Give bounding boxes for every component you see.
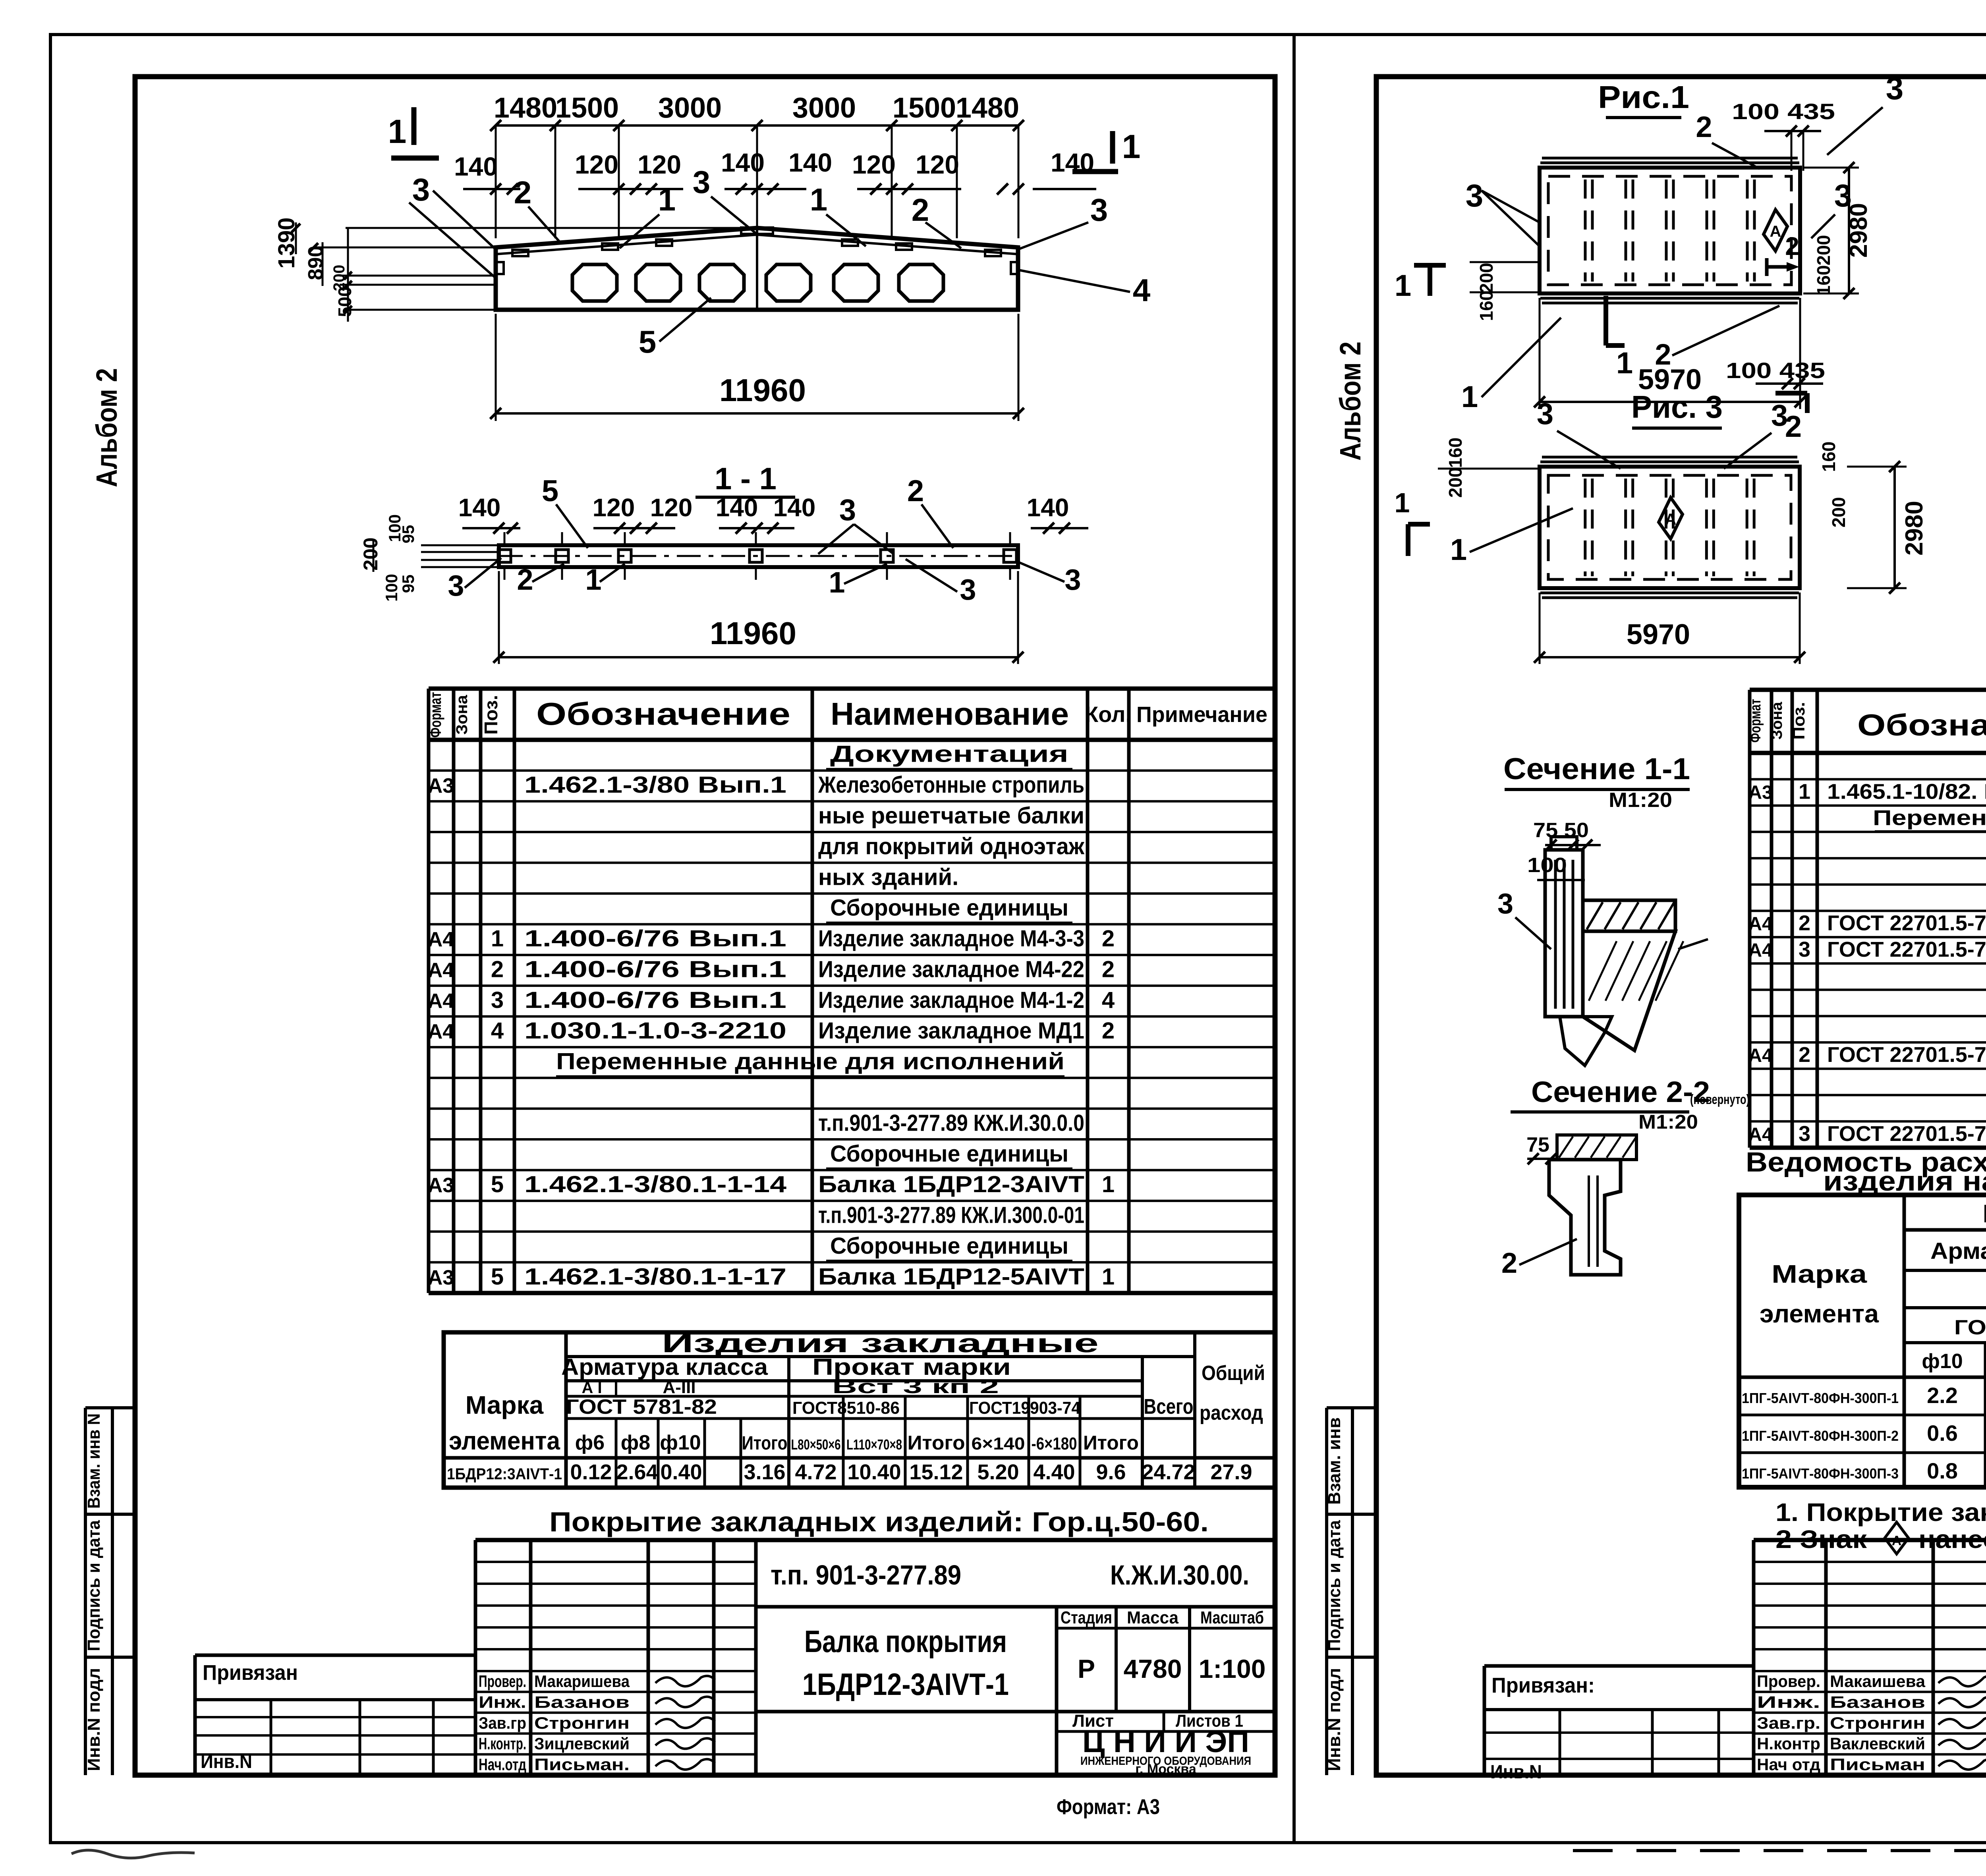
svg-text:Альбом 2: Альбом 2: [1334, 342, 1367, 461]
svg-text:Кол.: Кол.: [1085, 702, 1132, 727]
svg-text:Зона: Зона: [1769, 702, 1785, 740]
svg-text:А3: А3: [1748, 782, 1772, 803]
svg-text:5: 5: [639, 324, 657, 359]
svg-text:2: 2: [1799, 1043, 1810, 1067]
svg-text:160: 160: [1445, 438, 1466, 468]
svg-text:1500: 1500: [893, 92, 956, 124]
svg-text:Привязан: Привязан: [203, 1661, 298, 1685]
svg-text:Изделия закладные: Изделия закладные: [662, 1328, 1099, 1358]
svg-text:ные решетчатые балки: ные решетчатые балки: [818, 803, 1084, 828]
svg-text:Арматура класса: Арматура класса: [561, 1354, 768, 1380]
svg-text:2: 2: [1785, 232, 1799, 261]
svg-text:Железобетонные стропиль: Железобетонные стропиль: [818, 772, 1084, 798]
svg-text:Обозначение: Обозначение: [536, 696, 790, 731]
svg-text:ных зданий.: ных зданий.: [818, 864, 958, 890]
svg-text:4: 4: [491, 1018, 504, 1044]
svg-text:200: 200: [1813, 235, 1834, 266]
svg-text:0.6: 0.6: [1927, 1421, 1958, 1446]
svg-text:Инж.: Инж.: [1757, 1693, 1820, 1711]
svg-text:1ПГ-5АIVТ-80ФН-300П-2: 1ПГ-5АIVТ-80ФН-300П-2: [1742, 1428, 1899, 1444]
svg-text:1.465.1-10/82. Вып. 0:1: 1.465.1-10/82. Вып. 0:1: [1827, 780, 1986, 803]
svg-text:1.400-6/76 Вып.1: 1.400-6/76 Вып.1: [524, 987, 786, 1013]
svg-text:Обозначение: Обозначение: [1857, 708, 1986, 742]
svg-text:Поз.: Поз.: [481, 695, 501, 735]
svg-text:Базанов: Базанов: [1830, 1693, 1925, 1711]
svg-text:Вст 3 кп 2: Вст 3 кп 2: [832, 1376, 999, 1397]
svg-text:2: 2: [1696, 110, 1712, 143]
svg-text:11960: 11960: [719, 372, 806, 408]
svg-text:Нач.отд: Нач.отд: [479, 1755, 526, 1774]
svg-text:Формат: Формат: [427, 692, 444, 738]
svg-text:4.40: 4.40: [1033, 1460, 1075, 1484]
svg-text:Масса: Масса: [1127, 1608, 1179, 1627]
svg-text:Р: Р: [1078, 1654, 1095, 1683]
svg-text:200: 200: [359, 537, 382, 570]
svg-text:Формат: А3: Формат: А3: [1057, 1795, 1160, 1819]
svg-text:140: 140: [773, 493, 816, 522]
svg-text:140: 140: [716, 493, 758, 522]
svg-text:3: 3: [1799, 1122, 1810, 1146]
svg-text:2: 2: [1102, 926, 1115, 952]
svg-text:2.2: 2.2: [1927, 1383, 1958, 1408]
svg-text:1: 1: [1461, 380, 1478, 414]
svg-text:200: 200: [1445, 467, 1466, 498]
svg-text:140: 140: [788, 148, 832, 177]
svg-text:3: 3: [1799, 938, 1810, 961]
svg-text:120: 120: [650, 493, 693, 522]
svg-text:Итого: Итого: [1083, 1432, 1139, 1454]
svg-text:Балка покрытия: Балка покрытия: [804, 1624, 1007, 1659]
svg-text:Арматура класса: Арматура класса: [1930, 1238, 1986, 1264]
svg-text:1: 1: [1395, 269, 1411, 303]
svg-text:Переменные данные для исполнен: Переменные данные для исполнений: [1873, 806, 1986, 830]
svg-text:Нач отд: Нач отд: [1757, 1755, 1820, 1774]
svg-text:5970: 5970: [1627, 619, 1690, 650]
svg-text:95: 95: [399, 575, 417, 593]
svg-text:120: 120: [593, 493, 635, 522]
svg-text:Провер.: Провер.: [479, 1672, 526, 1691]
svg-text:4780: 4780: [1124, 1654, 1182, 1683]
svg-text:1: 1: [1616, 346, 1633, 380]
svg-text:3: 3: [412, 172, 430, 207]
svg-text:2980: 2980: [1901, 501, 1928, 556]
svg-text:Наименование: Наименование: [831, 696, 1069, 731]
svg-text:Изделие закладное М4-22: Изделие закладное М4-22: [818, 956, 1084, 982]
svg-text:элемента: элемента: [1760, 1299, 1879, 1328]
svg-text:Альбом 2: Альбом 2: [90, 368, 123, 487]
svg-text:А4: А4: [428, 928, 454, 951]
svg-text:А4: А4: [428, 959, 454, 982]
svg-text:ГОСТ 5781-82: ГОСТ 5781-82: [1954, 1316, 1986, 1339]
svg-text:200: 200: [1476, 263, 1497, 293]
svg-text:М1:20: М1:20: [1638, 1111, 1698, 1133]
svg-text:А: А: [1665, 511, 1677, 528]
svg-text:Взам. инв: Взам. инв: [1325, 1417, 1344, 1505]
svg-text:Итого: Итого: [908, 1432, 965, 1454]
svg-text:140: 140: [721, 148, 765, 177]
svg-text:1.462.1-3/80.1-1-14: 1.462.1-3/80.1-1-14: [524, 1172, 786, 1197]
svg-text:Изделие закладное М4-3-3: Изделие закладное М4-3-3: [818, 926, 1084, 952]
svg-text:1480: 1480: [956, 92, 1019, 124]
svg-text:Сечение 2-2: Сечение 2-2: [1531, 1075, 1710, 1108]
svg-text:4: 4: [1133, 272, 1151, 308]
svg-text:Итого: Итого: [742, 1433, 788, 1454]
svg-text:1БДР12:3АIVТ-1: 1БДР12:3АIVТ-1: [447, 1465, 562, 1483]
svg-text:Зицлевский: Зицлевский: [534, 1734, 630, 1753]
svg-text:А I: А I: [582, 1379, 602, 1397]
svg-text:100: 100: [1527, 854, 1567, 877]
svg-text:Инж.: Инж.: [479, 1693, 526, 1711]
svg-text:Макаишева: Макаишева: [1830, 1672, 1926, 1691]
svg-text:элемента: элемента: [449, 1426, 560, 1455]
svg-text:2980: 2980: [1845, 203, 1872, 258]
svg-text:Балка 1БДР12-5АIVТ: Балка 1БДР12-5АIVТ: [818, 1264, 1084, 1289]
svg-text:1: 1: [1395, 487, 1410, 518]
svg-text:Стронгин: Стронгин: [1830, 1714, 1925, 1732]
svg-text:75 50: 75 50: [1533, 819, 1589, 842]
svg-text:А-III: А-III: [663, 1378, 695, 1397]
svg-text:5: 5: [491, 1264, 504, 1289]
svg-text:3: 3: [491, 987, 504, 1013]
svg-text:120: 120: [575, 150, 618, 179]
svg-text:2: 2: [1501, 1247, 1517, 1279]
svg-text:5: 5: [542, 474, 558, 508]
svg-text:Сборочные единицы: Сборочные единицы: [830, 1141, 1068, 1167]
svg-text:1. Покрытие закладных изделий:: 1. Покрытие закладных изделий: Гор.ц.50-…: [1775, 1498, 1986, 1527]
svg-text:Письман.: Письман.: [534, 1755, 630, 1774]
svg-text:1:100: 1:100: [1199, 1654, 1266, 1683]
svg-text:Зав.гр: Зав.гр: [479, 1714, 526, 1732]
svg-text:1480: 1480: [494, 92, 557, 124]
svg-text:10.40: 10.40: [847, 1460, 901, 1484]
svg-text:ГОСТ 22701.5-77: ГОСТ 22701.5-77: [1827, 911, 1986, 935]
svg-text:ГОСТ 22701.5-77: ГОСТ 22701.5-77: [1827, 938, 1986, 961]
svg-text:1.400-6/76 Вып.1: 1.400-6/76 Вып.1: [524, 926, 786, 952]
svg-text:г. Москва: г. Москва: [1135, 1762, 1197, 1777]
svg-text:1: 1: [1102, 1264, 1115, 1289]
svg-text:Сборочные единицы: Сборочные единицы: [830, 1233, 1068, 1259]
svg-text:3.16: 3.16: [744, 1460, 785, 1484]
svg-text:М1:20: М1:20: [1609, 789, 1672, 812]
svg-text:24.72: 24.72: [1142, 1460, 1195, 1484]
svg-text:0.12: 0.12: [570, 1460, 612, 1484]
svg-text:Изделие закладное М4-1-2: Изделие закладное М4-1-2: [818, 987, 1084, 1013]
svg-text:5: 5: [491, 1172, 504, 1197]
svg-text:Покрытие закладных изделий:: Покрытие закладных изделий: Гор.ц.50-60.: [549, 1506, 1209, 1537]
svg-text:Масштаб: Масштаб: [1200, 1608, 1264, 1627]
svg-text:2: 2: [514, 175, 532, 210]
svg-text:1БДР12-3АIVТ-1: 1БДР12-3АIVТ-1: [802, 1667, 1009, 1702]
svg-text:1: 1: [829, 566, 845, 599]
svg-text:-6×180: -6×180: [1032, 1434, 1077, 1453]
svg-text:Примечание: Примечание: [1136, 702, 1267, 727]
svg-text:Подпись и дата: Подпись и дата: [84, 1520, 104, 1651]
svg-text:для покрытий одноэтаж: для покрытий одноэтаж: [818, 834, 1085, 859]
svg-text:1ПГ-5АIVТ-80ФН-300П-3: 1ПГ-5АIVТ-80ФН-300П-3: [1742, 1465, 1899, 1482]
svg-text:Провер.: Провер.: [1757, 1672, 1820, 1691]
svg-text:2: 2: [491, 956, 504, 982]
svg-text:Инв.N: Инв.N: [201, 1751, 252, 1772]
svg-text:120: 120: [916, 150, 959, 179]
svg-text:140: 140: [458, 493, 501, 522]
svg-text:3000: 3000: [658, 92, 722, 124]
svg-text:1: 1: [491, 926, 504, 952]
svg-text:0.40: 0.40: [660, 1460, 702, 1484]
svg-text:160: 160: [1476, 291, 1497, 321]
svg-text:А3: А3: [428, 1174, 454, 1197]
svg-text:L110×70×8: L110×70×8: [846, 1436, 902, 1453]
svg-text:Инв.N подл: Инв.N подл: [84, 1668, 104, 1771]
svg-text:Изделие закладное МД1: Изделие закладное МД1: [818, 1018, 1084, 1044]
svg-text:т.п.901-3-277.89 КЖ.И.300.0-0: т.п.901-3-277.89 КЖ.И.300.0-01: [818, 1202, 1084, 1228]
svg-text:3: 3: [448, 569, 464, 602]
svg-text:95: 95: [399, 525, 417, 544]
svg-text:11960: 11960: [710, 616, 796, 651]
svg-text:120: 120: [638, 150, 681, 179]
svg-text:Балка 1БДР12-3АIVТ: Балка 1БДР12-3АIVТ: [818, 1172, 1084, 1197]
svg-text:160: 160: [1818, 442, 1839, 472]
svg-text:0.8: 0.8: [1927, 1458, 1958, 1483]
svg-text:ГОСТ19903-74: ГОСТ19903-74: [969, 1398, 1080, 1418]
svg-text:1: 1: [810, 182, 828, 217]
svg-text:100 435: 100 435: [1732, 99, 1835, 124]
svg-text:Сборочные единицы: Сборочные единицы: [830, 895, 1068, 921]
svg-text:А4: А4: [428, 990, 454, 1013]
svg-text:100: 100: [382, 574, 401, 602]
svg-text:160: 160: [1813, 265, 1834, 296]
svg-text:Марка: Марка: [1772, 1260, 1867, 1288]
svg-text:1: 1: [1102, 1172, 1115, 1197]
svg-text:3000: 3000: [792, 92, 856, 124]
svg-text:1.462.1-3/80 Вып.1: 1.462.1-3/80 Вып.1: [524, 772, 786, 798]
svg-text:ф10: ф10: [1922, 1350, 1963, 1373]
svg-text:ф10: ф10: [660, 1431, 701, 1454]
svg-text:140: 140: [1027, 493, 1069, 522]
svg-text:120: 120: [852, 150, 896, 179]
svg-text:2: 2: [1102, 1018, 1115, 1044]
svg-text:ф8: ф8: [621, 1431, 650, 1454]
svg-text:Базанов: Базанов: [534, 1693, 630, 1711]
svg-text:3: 3: [1771, 399, 1788, 432]
svg-text:А4: А4: [1748, 1045, 1773, 1066]
svg-text:1: 1: [658, 182, 676, 217]
svg-text:4: 4: [1102, 987, 1115, 1013]
svg-text:Взам. инв N: Взам. инв N: [84, 1413, 104, 1509]
svg-text:1 - 1: 1 - 1: [715, 461, 777, 496]
svg-text:А4: А4: [1748, 914, 1773, 935]
svg-text:3: 3: [839, 493, 856, 527]
svg-text:Привязан:: Привязан:: [1491, 1673, 1595, 1697]
svg-text:Стронгин: Стронгин: [534, 1714, 630, 1732]
svg-text:ф6: ф6: [575, 1431, 605, 1454]
svg-text:1.400-6/76 Вып.1: 1.400-6/76 Вып.1: [524, 956, 786, 982]
svg-text:изделия на элемент, кг: изделия на элемент, кг: [1823, 1166, 1986, 1197]
svg-text:890: 890: [304, 246, 327, 280]
svg-text:3: 3: [1466, 178, 1484, 213]
svg-text:Документация: Документация: [830, 741, 1068, 767]
svg-text:Марка: Марка: [466, 1391, 544, 1419]
svg-text:2: 2: [1102, 956, 1115, 982]
svg-text:Н.контр.: Н.контр.: [479, 1734, 526, 1753]
svg-text:6×140: 6×140: [972, 1434, 1025, 1453]
svg-text:5.20: 5.20: [977, 1460, 1019, 1484]
svg-text:ГОСТ 5781-82: ГОСТ 5781-82: [566, 1395, 717, 1419]
svg-text:2.64: 2.64: [616, 1460, 658, 1484]
svg-text:Н.контр: Н.контр: [1757, 1734, 1820, 1753]
svg-text:4.72: 4.72: [795, 1460, 837, 1484]
svg-text:А4: А4: [1748, 940, 1773, 961]
svg-text:Изделия закладные: Изделия закладные: [1982, 1199, 1986, 1228]
svg-text:140: 140: [454, 152, 498, 181]
svg-text:А4: А4: [428, 1020, 454, 1043]
svg-text:3: 3: [1537, 397, 1553, 431]
svg-text:27.9: 27.9: [1210, 1460, 1252, 1484]
svg-text:А: А: [1770, 223, 1781, 240]
svg-text:Стадия: Стадия: [1061, 1608, 1112, 1627]
svg-text:т.п. 901-3-277.89: т.п. 901-3-277.89: [771, 1559, 961, 1590]
svg-text:2: 2: [517, 563, 533, 596]
svg-text:К.Ж.И.30.00.: К.Ж.И.30.00.: [1110, 1559, 1249, 1590]
svg-text:А3: А3: [428, 774, 454, 797]
svg-text:Макаришева: Макаришева: [534, 1672, 630, 1691]
svg-text:А4: А4: [1748, 1124, 1773, 1145]
svg-text:Всего: Всего: [1144, 1395, 1194, 1419]
svg-text:Зав.гр.: Зав.гр.: [1757, 1714, 1820, 1732]
svg-text:т.п.901-3-277.89 КЖ.И.30.0.0: т.п.901-3-277.89 КЖ.И.30.0.0: [818, 1110, 1084, 1136]
svg-text:Рис. 3: Рис. 3: [1631, 389, 1723, 425]
svg-text:Инв.N подл: Инв.N подл: [1325, 1668, 1344, 1771]
svg-text:расход: расход: [1200, 1401, 1263, 1424]
svg-text:1.462.1-3/80.1-1-17: 1.462.1-3/80.1-1-17: [524, 1264, 786, 1289]
svg-text:Формат: Формат: [1747, 699, 1764, 743]
svg-text:2: 2: [907, 474, 924, 508]
svg-text:3: 3: [1497, 888, 1513, 920]
svg-text:ГОСТ8510-86: ГОСТ8510-86: [792, 1398, 900, 1418]
svg-text:1500: 1500: [555, 92, 619, 124]
svg-text:Зона: Зона: [453, 695, 471, 735]
svg-text:2: 2: [1799, 911, 1810, 935]
svg-text:Подпись и дата: Подпись и дата: [1325, 1520, 1344, 1651]
svg-text:15.12: 15.12: [909, 1460, 963, 1484]
svg-text:3: 3: [1064, 563, 1081, 596]
svg-text:1: 1: [1122, 128, 1141, 165]
svg-text:Письман: Письман: [1830, 1755, 1925, 1774]
svg-text:А3: А3: [428, 1266, 454, 1289]
svg-text:1.030.1-1.0-3-2210: 1.030.1-1.0-3-2210: [524, 1018, 786, 1044]
svg-text:100 435: 100 435: [1726, 358, 1825, 383]
svg-text:1: 1: [388, 113, 407, 150]
svg-text:3: 3: [1090, 192, 1108, 228]
svg-text:Общий: Общий: [1202, 1362, 1265, 1385]
svg-text:Инв.N: Инв.N: [1490, 1762, 1542, 1783]
svg-text:1: 1: [1450, 533, 1467, 567]
svg-text:Ваклевский: Ваклевский: [1830, 1734, 1925, 1753]
svg-text:3: 3: [1886, 71, 1904, 106]
svg-text:200: 200: [1828, 497, 1849, 528]
svg-text:Рис.1: Рис.1: [1598, 79, 1689, 115]
svg-text:(повернуто): (повернуто): [1690, 1092, 1750, 1107]
svg-text:ГОСТ 22701.5-77: ГОСТ 22701.5-77: [1827, 1043, 1986, 1067]
svg-text:1: 1: [585, 563, 601, 596]
svg-text:ГОСТ 22701.5-77: ГОСТ 22701.5-77: [1827, 1122, 1986, 1146]
svg-text:Сечение 1-1: Сечение 1-1: [1503, 752, 1690, 786]
svg-text:9.6: 9.6: [1096, 1460, 1126, 1484]
svg-text:1: 1: [1799, 780, 1810, 803]
svg-text:3: 3: [960, 573, 976, 606]
svg-text:Поз.: Поз.: [1789, 702, 1808, 740]
svg-text:L80×50×6: L80×50×6: [791, 1436, 841, 1453]
svg-text:3: 3: [693, 164, 711, 200]
svg-text:1ПГ-5АIVТ-80ФН-300П-1: 1ПГ-5АIVТ-80ФН-300П-1: [1742, 1390, 1899, 1406]
svg-text:Ц Н И И ЭП: Ц Н И И ЭП: [1082, 1725, 1249, 1759]
svg-text:Переменные данные для исполнен: Переменные данные для исполнений: [556, 1049, 1064, 1075]
